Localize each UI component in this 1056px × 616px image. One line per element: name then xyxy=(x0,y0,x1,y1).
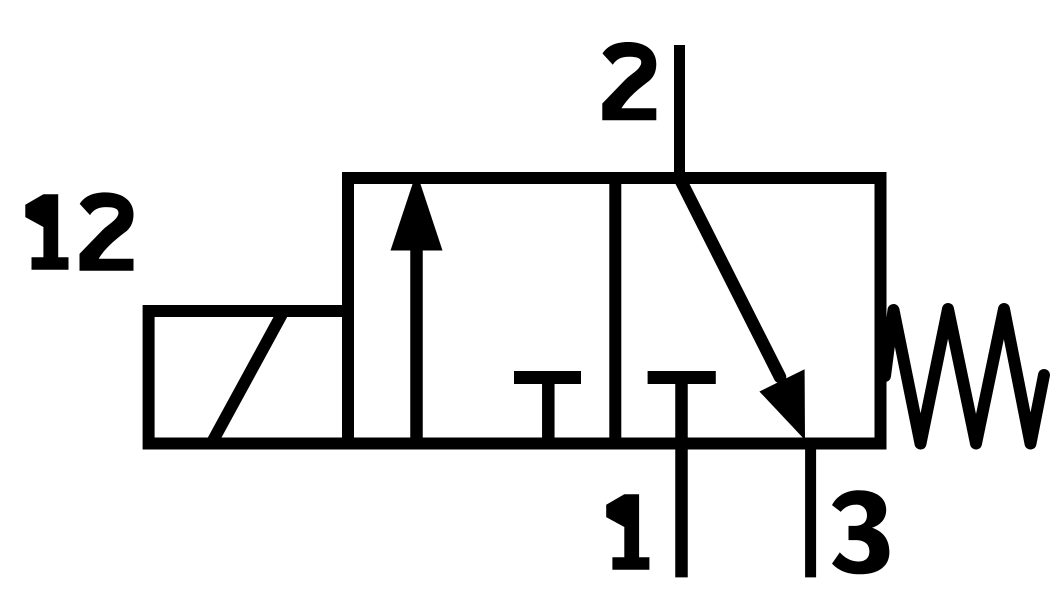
blocked port symbol T (right box) xyxy=(648,371,716,384)
position divider line xyxy=(609,172,621,450)
port 3 line (bottom) xyxy=(805,444,816,578)
exhaust arrow 2-3 shaft (right box) xyxy=(680,178,781,377)
exhaust arrow 2-3 head xyxy=(759,369,805,440)
pilot port label 12 xyxy=(25,192,133,270)
pilot solenoid box xyxy=(149,311,348,444)
port label 1 xyxy=(606,494,649,570)
port label 3 xyxy=(832,490,889,574)
port label 2 xyxy=(602,42,656,120)
pilot solenoid diagonal stroke xyxy=(213,314,283,442)
flow path arrow 1-2 shaft (left box) xyxy=(410,244,423,444)
port 1 line (bottom) xyxy=(675,444,688,578)
valve body outline (two-position box) xyxy=(348,178,881,444)
port 2 line (top) xyxy=(674,45,685,184)
blocked port symbol T (left box) xyxy=(514,371,581,384)
return spring xyxy=(885,309,1044,444)
flow path arrow 1-2 head xyxy=(391,172,443,251)
